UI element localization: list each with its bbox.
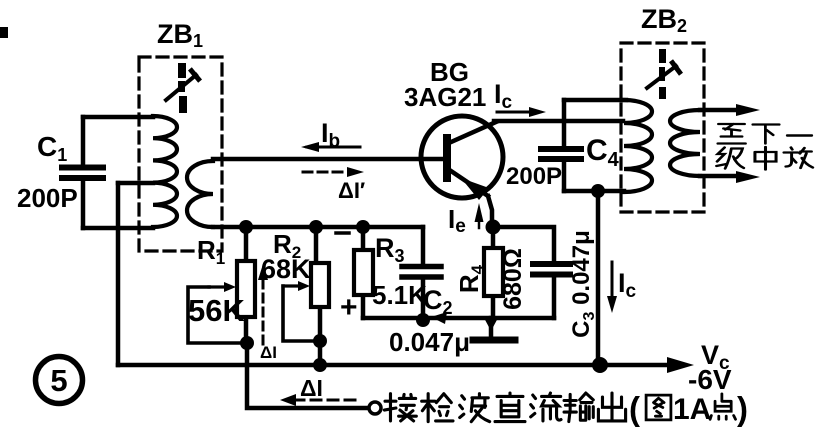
node dot emitter: [486, 220, 501, 235]
dashed arrow delta-I up (beside R1): [258, 264, 268, 344]
capacitor C3: [533, 264, 570, 318]
ZB1 primary winding: [153, 116, 177, 227]
capacitor C2: [402, 227, 441, 320]
ZB2 primary winding: [624, 100, 652, 192]
svg-text:3AG21: 3AG21: [404, 82, 486, 112]
svg-text:ΔI′: ΔI′: [338, 178, 365, 203]
figure number 5 circle: [36, 357, 83, 404]
resistor R3: [354, 227, 373, 318]
svg-text:Ic: Ic: [494, 79, 513, 113]
svg-text:Ic: Ic: [618, 268, 637, 302]
capacitor C4: [541, 100, 581, 191]
svg-text:Ib: Ib: [321, 118, 340, 152]
potentiometer R2: [283, 227, 329, 341]
node dot ZB2 wire on Vc rail: [592, 357, 608, 373]
wire: emitter down: [488, 196, 492, 227]
wire: output bottom with arrow: [700, 171, 760, 183]
node dot ZB2 primary bottom: [591, 184, 605, 198]
svg-text:680Ω: 680Ω: [499, 248, 527, 310]
svg-text:1A: 1A: [673, 393, 711, 426]
svg-text:200P: 200P: [17, 183, 78, 213]
ZB2 secondary winding: [670, 110, 700, 176]
ZB1 adjustable core: [166, 63, 199, 113]
label ji-zhong-fang (stage IF amp) line 2: [716, 147, 812, 170]
arrow Ic (right, down): [607, 262, 617, 313]
node dot R2 bottom: [313, 334, 327, 348]
node dot R2 on Vc rail: [313, 358, 327, 372]
terminal circle (AGC input): [369, 402, 381, 414]
capacitor C1: [62, 117, 103, 228]
svg-text:ΔI: ΔI: [260, 343, 277, 362]
wire: base wire ZB1 secondary to transistor: [213, 157, 444, 162]
svg-text:ZB1: ZB1: [157, 19, 203, 51]
svg-text:C2: C2: [423, 285, 453, 318]
dashed arrow delta-I-prime: [303, 167, 364, 177]
arrow Ie (up): [475, 203, 484, 228]
wire: ZB1 primary tap: [118, 181, 153, 186]
scan speck left edge: [0, 27, 8, 38]
svg-text:(: (: [629, 390, 640, 427]
node dot R3 top: [356, 220, 370, 234]
wire: C1 top to ZB1 primary top: [83, 115, 153, 120]
label: connect detector DC output (fig 1 point A): [384, 390, 748, 427]
potentiometer R1: [188, 227, 255, 343]
svg-text:ZB2: ZB2: [641, 4, 687, 36]
svg-text:C1: C1: [37, 131, 67, 165]
svg-text:200P: 200P: [506, 163, 562, 190]
wire: Vc rail with arrow: [118, 357, 694, 373]
wire: C4 top corner to ZB2 primary top: [564, 98, 626, 103]
svg-text:R3: R3: [375, 233, 405, 266]
svg-text:): ): [737, 390, 748, 427]
svg-text:-6V: -6V: [688, 364, 732, 395]
arrow Ic (top): [497, 107, 546, 117]
wire: tap down to Vc rail: [116, 183, 121, 365]
transformer ZB2 dashed box: [621, 43, 704, 212]
wire: ZB2 bottom down to Vc rail: [596, 191, 601, 365]
wire: bottom bus R3 to C3: [363, 316, 554, 321]
wire: output top with arrow: [700, 104, 760, 116]
label zhi-xia-yi (to next) line 1: [718, 124, 812, 144]
svg-text:68K: 68K: [261, 254, 311, 284]
wire: collector rail: [494, 119, 623, 124]
node dot R1 bottom: [240, 336, 254, 350]
wire: emitter node to C3: [493, 227, 554, 261]
dashed arrow delta-I (bottom): [280, 394, 358, 406]
svg-text:5.1K: 5.1K: [372, 280, 427, 310]
svg-text:C3 0.047μ: C3 0.047μ: [568, 230, 598, 338]
node dot R1 top: [239, 220, 253, 234]
ground: [473, 316, 515, 340]
wire: C1 bottom to ZB1 primary bottom: [83, 226, 153, 231]
svg-text:0.047μ: 0.047μ: [389, 327, 470, 357]
svg-text:ΔI: ΔI: [300, 375, 323, 401]
svg-text:+: +: [340, 291, 358, 324]
wire: base node rail: [213, 225, 423, 230]
svg-text:Ie: Ie: [448, 204, 466, 237]
transistor BG 3AG21: [421, 116, 503, 200]
transformer ZB1 dashed box: [139, 57, 222, 251]
wire: R1 bottom to AGC terminal: [247, 343, 368, 408]
svg-text:5: 5: [50, 363, 67, 398]
svg-text:R4: R4: [454, 264, 487, 293]
node dot C2 bottom: [416, 313, 430, 327]
wire: C4 bottom to ZB2 primary bottom: [564, 189, 624, 194]
svg-text:C4: C4: [586, 134, 620, 171]
node dot R2 top: [309, 220, 323, 234]
ZB2 adjustable core: [647, 49, 680, 99]
minus polarity mark: [336, 231, 349, 235]
arrow Ib: [301, 142, 360, 152]
wire: R2 bottom to Vc rail: [318, 341, 323, 365]
small leader arrow at C2 node: [431, 312, 447, 324]
resistor R4: [484, 227, 503, 318]
svg-text:56K: 56K: [188, 293, 245, 328]
ZB1 secondary winding: [187, 161, 213, 227]
svg-text:R1: R1: [197, 235, 225, 268]
